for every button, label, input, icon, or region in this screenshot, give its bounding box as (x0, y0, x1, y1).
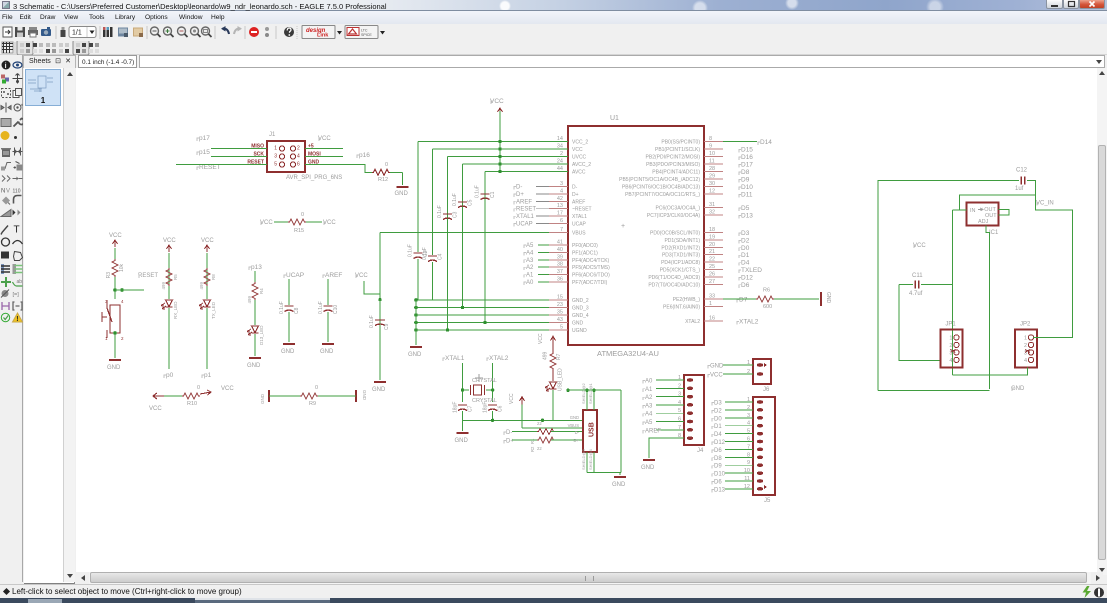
svg-text:ADJ: ADJ (978, 219, 989, 225)
svg-text:GND: GND (281, 349, 295, 355)
svg-text:A4: A4 (526, 250, 534, 256)
svg-text:11: 11 (709, 159, 715, 165)
svg-text:GND: GND (247, 363, 261, 369)
svg-text:GND: GND (107, 365, 121, 371)
svg-text:0.1uF: 0.1uF (437, 205, 443, 218)
svg-text:26: 26 (709, 271, 715, 277)
svg-text:PD4(ICP1/ADC8): PD4(ICP1/ADC8) (661, 260, 700, 266)
svg-text:1: 1 (709, 301, 712, 307)
svg-text:D+: D+ (574, 438, 580, 443)
svg-text:D12: D12 (714, 440, 726, 446)
svg-text:VCC: VCC (163, 238, 176, 244)
svg-text:PF7(ADC7/TDI): PF7(ADC7/TDI) (572, 280, 608, 286)
svg-text:10k: 10k (119, 263, 125, 272)
svg-text:GND: GND (320, 349, 334, 355)
svg-text:0: 0 (197, 385, 200, 391)
svg-text:18: 18 (709, 227, 715, 233)
svg-text:VCC: VCC (323, 220, 336, 226)
svg-text:0.1uF: 0.1uF (408, 244, 414, 257)
svg-text:A2: A2 (526, 265, 534, 271)
svg-text:GND: GND (260, 393, 265, 404)
svg-text:A3: A3 (526, 258, 534, 264)
svg-text:22: 22 (537, 421, 542, 426)
svg-text:UVCC: UVCC (572, 155, 587, 161)
svg-text:0.1uF: 0.1uF (279, 301, 285, 314)
svg-text:GND: GND (362, 390, 367, 401)
svg-text:SHIELD@4: SHIELD@4 (588, 448, 593, 470)
svg-text:2: 2 (297, 146, 300, 152)
svg-text:R12: R12 (378, 177, 388, 183)
svg-text:VBUS: VBUS (568, 423, 580, 428)
svg-text:29: 29 (709, 174, 715, 180)
svg-text:7: 7 (560, 227, 563, 233)
svg-text:!: ! (16, 316, 18, 323)
svg-text:3: 3 (274, 154, 277, 160)
svg-text:27: 27 (709, 279, 715, 285)
svg-text:D0: D0 (741, 245, 750, 252)
svg-text:VCC: VCC (109, 233, 122, 239)
svg-text:41: 41 (557, 240, 563, 246)
svg-text:RESET: RESET (516, 207, 536, 213)
svg-text:SHIELD@1: SHIELD@1 (588, 382, 593, 404)
svg-text:39: 39 (557, 254, 563, 260)
svg-text:35: 35 (557, 310, 563, 316)
svg-text:D-: D- (506, 430, 512, 436)
svg-text:VCC: VCC (201, 238, 214, 244)
svg-text:AREF: AREF (645, 428, 661, 434)
svg-text:1uf: 1uf (1015, 186, 1024, 192)
svg-text:VCC: VCC (318, 136, 331, 142)
svg-text:R3: R3 (106, 272, 112, 279)
svg-text:SPICE: SPICE (361, 33, 372, 37)
svg-text:22: 22 (709, 257, 715, 263)
svg-text:D9: D9 (741, 177, 750, 184)
svg-text:33: 33 (709, 294, 715, 300)
svg-text:p13: p13 (251, 264, 262, 271)
svg-text:C1: C1 (490, 191, 496, 198)
svg-text:D3: D3 (741, 230, 750, 237)
svg-text:USB: USB (589, 422, 596, 437)
svg-text:D2: D2 (741, 237, 750, 244)
svg-text:42: 42 (557, 196, 563, 202)
svg-text:R4: R4 (259, 288, 264, 294)
svg-text:ATMEGA32U4-AU: ATMEGA32U4-AU (597, 349, 659, 358)
svg-text:GND: GND (395, 191, 409, 197)
svg-text:A3: A3 (645, 403, 653, 409)
svg-text:1: 1 (949, 335, 952, 341)
svg-text:R10: R10 (187, 401, 197, 407)
svg-text:C5: C5 (468, 199, 474, 206)
svg-text:0: 0 (301, 212, 304, 218)
svg-text:USB_LED: USB_LED (558, 368, 564, 391)
svg-text:D13_LED: D13_LED (259, 325, 264, 345)
svg-text:PB2(PDI/PCINT2/MOSI): PB2(PDI/PCINT2/MOSI) (646, 155, 701, 161)
svg-text:GND: GND (570, 415, 579, 420)
svg-text:17: 17 (557, 211, 563, 217)
svg-text:AREF: AREF (572, 199, 585, 205)
svg-text:R15: R15 (294, 228, 304, 234)
svg-text:10: 10 (709, 151, 715, 157)
svg-text:D17: D17 (741, 162, 753, 169)
svg-text:GND_3: GND_3 (572, 306, 589, 312)
svg-text:J6: J6 (763, 387, 770, 393)
svg-text:D0: D0 (714, 416, 722, 422)
svg-text:C11: C11 (912, 273, 923, 279)
svg-text:6: 6 (560, 218, 563, 224)
svg-text:A5: A5 (526, 243, 534, 249)
svg-text:A1: A1 (645, 387, 653, 393)
svg-text:R1: R1 (530, 438, 535, 444)
svg-text:A5: A5 (645, 420, 653, 426)
svg-text:19: 19 (709, 234, 715, 240)
svg-text:VCC_2: VCC_2 (572, 140, 588, 146)
svg-text:600: 600 (763, 304, 772, 310)
svg-text:2: 2 (949, 343, 952, 349)
svg-text:D3: D3 (714, 401, 722, 407)
svg-text:AVCC: AVCC (572, 170, 586, 176)
svg-text:110: 110 (13, 189, 21, 195)
svg-text:PD7(T0/OC4D/ADC10): PD7(T0/OC4D/ADC10) (648, 282, 700, 288)
svg-text:31: 31 (709, 202, 715, 208)
svg-text:VCC: VCC (572, 147, 583, 153)
svg-text:0: 0 (385, 162, 388, 168)
svg-text:~RESET: ~RESET (572, 207, 592, 213)
svg-text:D6: D6 (714, 480, 722, 486)
svg-text:43: 43 (557, 317, 563, 323)
svg-text:0.1uF: 0.1uF (475, 185, 481, 198)
svg-text:4: 4 (949, 358, 952, 364)
svg-text:J4: J4 (697, 448, 704, 454)
svg-text:Link: Link (317, 33, 329, 39)
svg-text:GND_4: GND_4 (572, 313, 589, 319)
svg-text:PF4(ADC4/TCK): PF4(ADC4/TCK) (572, 258, 610, 264)
svg-text:PF5(ADC5/TMS): PF5(ADC5/TMS) (572, 265, 610, 271)
svg-text:D6: D6 (741, 282, 750, 289)
svg-text:15: 15 (557, 295, 563, 301)
svg-text:PF1(ADC1): PF1(ADC1) (572, 250, 598, 256)
svg-text:JP1: JP1 (945, 321, 956, 327)
svg-text:C9: C9 (384, 323, 390, 330)
svg-text:37: 37 (557, 269, 563, 275)
svg-text:GND_2: GND_2 (572, 298, 589, 304)
svg-text:C6: C6 (498, 405, 504, 412)
svg-text:VCC: VCC (260, 220, 273, 226)
svg-text:IC1: IC1 (989, 230, 999, 236)
svg-text:R2: R2 (530, 446, 535, 452)
svg-text:D1: D1 (714, 424, 722, 430)
svg-text:0.1uF: 0.1uF (318, 301, 324, 314)
svg-text:VCC: VCC (710, 373, 723, 379)
svg-text:D10: D10 (741, 184, 753, 191)
svg-text:28: 28 (709, 166, 715, 172)
svg-text:6: 6 (297, 162, 300, 168)
svg-text:VCC: VCC (509, 393, 515, 404)
svg-text:D+: D+ (506, 439, 514, 445)
svg-text:D13: D13 (741, 213, 753, 220)
svg-text:A1: A1 (526, 273, 534, 279)
svg-text:PB3(PDO/PCIN3/MISO): PB3(PDO/PCIN3/MISO) (646, 162, 700, 168)
svg-text:SHIELD@2: SHIELD@2 (581, 382, 586, 404)
svg-text:PF6(ADC6/TDO): PF6(ADC6/TDO) (572, 273, 610, 279)
svg-text:[=]: [=] (13, 292, 20, 298)
svg-text:RESET: RESET (199, 164, 221, 171)
svg-text:0.1uF: 0.1uF (369, 315, 375, 328)
svg-text:GND: GND (408, 352, 422, 358)
svg-text:R9: R9 (309, 401, 316, 407)
svg-text:D+: D+ (572, 192, 579, 198)
svg-text:25: 25 (709, 264, 715, 270)
svg-text:PB4(PCINT4/ADC11): PB4(PCINT4/ADC11) (652, 170, 700, 176)
svg-text:2: 2 (1024, 343, 1027, 349)
svg-text:T: T (14, 225, 20, 236)
svg-text:AREF: AREF (325, 272, 342, 279)
svg-text:XTAL1: XTAL1 (445, 355, 465, 362)
svg-text:LTC: LTC (361, 29, 368, 33)
svg-text:16: 16 (709, 316, 715, 322)
svg-text:N: N (1, 189, 5, 195)
svg-text:R7: R7 (556, 353, 562, 360)
svg-text:D13: D13 (714, 487, 726, 493)
svg-text:A4: A4 (645, 412, 653, 418)
svg-text:GND: GND (641, 465, 655, 471)
svg-text:VCC: VCC (913, 243, 926, 249)
svg-text:IN: IN (970, 208, 976, 214)
svg-text:CRYSTAL: CRYSTAL (472, 378, 497, 384)
svg-text:21: 21 (709, 249, 715, 255)
svg-text:D2: D2 (714, 408, 722, 414)
svg-text:1: 1 (1024, 335, 1027, 341)
svg-text:PD1(SDA/INT1): PD1(SDA/INT1) (664, 238, 700, 244)
svg-text:ab: ab (17, 279, 23, 285)
svg-text:VCC: VCC (221, 386, 234, 392)
svg-text:C3: C3 (453, 211, 459, 218)
svg-text:18pF: 18pF (483, 402, 489, 413)
svg-text:D12: D12 (741, 274, 753, 281)
svg-text:UCAP: UCAP (516, 222, 533, 228)
svg-text:D4: D4 (741, 260, 750, 267)
svg-text:GND: GND (572, 321, 584, 327)
svg-text:SHIELD@3: SHIELD@3 (581, 448, 586, 470)
svg-text:D1: D1 (741, 252, 750, 259)
svg-text:23: 23 (557, 302, 563, 308)
svg-text:p15: p15 (199, 149, 210, 156)
svg-text:0.1uF: 0.1uF (422, 247, 428, 260)
svg-text:40: 40 (557, 247, 563, 253)
svg-text:RX_LED: RX_LED (173, 301, 178, 319)
svg-text:5: 5 (560, 325, 563, 331)
svg-text:XTAL2: XTAL2 (489, 355, 509, 362)
svg-text:22: 22 (537, 446, 542, 451)
svg-text:PC7(ICP3/CLK0/OC4A): PC7(ICP3/CLK0/OC4A) (647, 213, 700, 219)
svg-text:38: 38 (557, 262, 563, 268)
svg-text:GND: GND (710, 364, 724, 370)
svg-text:p16: p16 (359, 152, 370, 159)
svg-text:PE2(HWB_): PE2(HWB_) (673, 297, 701, 303)
svg-text:VCC: VCC (538, 333, 544, 344)
svg-text:D10: D10 (714, 472, 726, 478)
svg-text:TXLED: TXLED (741, 267, 762, 274)
svg-text:0: 0 (315, 385, 318, 391)
svg-text:9: 9 (709, 144, 712, 150)
svg-text:JP2: JP2 (1020, 321, 1031, 327)
svg-text:R8: R8 (211, 274, 216, 280)
svg-text:p0: p0 (166, 372, 174, 379)
svg-text:D+: D+ (516, 192, 524, 198)
svg-text:12: 12 (709, 189, 715, 195)
svg-text:D6: D6 (714, 448, 722, 454)
svg-text:1: 1 (274, 146, 277, 152)
svg-text:D5: D5 (741, 205, 750, 212)
svg-text:D-: D- (516, 185, 522, 191)
svg-text:PB5(PCINT5/OC1A/OC4B_/ADC12): PB5(PCINT5/OC1A/OC4B_/ADC12) (619, 177, 700, 183)
svg-text:20: 20 (709, 242, 715, 248)
svg-text:PD5(XCK1/CTS_): PD5(XCK1/CTS_) (660, 268, 701, 274)
svg-text:D11: D11 (741, 192, 753, 199)
svg-text:+: + (621, 223, 625, 230)
svg-text:V: V (6, 189, 10, 195)
svg-text:PE6(INT.6/AIN0): PE6(INT.6/AIN0) (663, 304, 700, 310)
svg-text:AREF: AREF (516, 199, 532, 205)
svg-text:PB0(SS/PCINT0): PB0(SS/PCINT0) (661, 140, 700, 146)
svg-text:VC_IN: VC_IN (1036, 201, 1054, 207)
svg-text:PF0(ADC0): PF0(ADC0) (572, 243, 598, 249)
svg-text:D-: D- (572, 185, 578, 191)
svg-text:499: 499 (161, 282, 166, 290)
svg-text:XTAL2: XTAL2 (685, 319, 700, 325)
svg-text:A2: A2 (645, 395, 653, 401)
svg-text:R6: R6 (763, 288, 770, 294)
svg-text:4.7uf: 4.7uf (909, 291, 923, 297)
svg-text:D-: D- (575, 430, 580, 435)
svg-text:p1: p1 (204, 372, 212, 379)
svg-text:D9: D9 (714, 464, 722, 470)
svg-text:GND: GND (1011, 386, 1025, 392)
svg-text:VBUS: VBUS (572, 231, 586, 237)
svg-text:4: 4 (560, 189, 563, 195)
svg-text:499: 499 (199, 282, 204, 290)
svg-text:D8: D8 (741, 169, 750, 176)
svg-text:RESET: RESET (138, 273, 158, 279)
svg-text:R5: R5 (173, 274, 178, 280)
svg-text:PB1(PCINT1/SCLK): PB1(PCINT1/SCLK) (655, 147, 700, 153)
svg-text:PB6(PCINT6/OC1B/OC4B/ADC13): PB6(PCINT6/OC1B/OC4B/ADC13) (622, 185, 700, 191)
svg-text:AVCC_2: AVCC_2 (572, 162, 591, 168)
svg-text:2: 2 (121, 336, 124, 341)
svg-text:PD2(RXD1/INT2): PD2(RXD1/INT2) (661, 245, 700, 251)
svg-text:GND: GND (455, 438, 469, 444)
svg-text:PD0(OC0B/SCL/INT0): PD0(OC0B/SCL/INT0) (650, 231, 700, 237)
svg-text:C4: C4 (438, 253, 444, 260)
svg-text:D4: D4 (714, 432, 722, 438)
svg-text:VCC: VCC (490, 98, 504, 105)
svg-text:499: 499 (247, 296, 252, 304)
svg-text:4: 4 (297, 154, 300, 160)
svg-text:PD3(TXD1/INT3): PD3(TXD1/INT3) (662, 253, 700, 259)
svg-text:A0: A0 (526, 280, 534, 286)
svg-text:499: 499 (543, 351, 549, 360)
svg-text:VCC: VCC (149, 406, 162, 412)
svg-text:UCAP: UCAP (286, 272, 304, 279)
svg-text:PD6(T1/OC4D_/ADC9): PD6(T1/OC4D_/ADC9) (648, 275, 700, 281)
svg-text:AVR_SPI_PRG_6NS: AVR_SPI_PRG_6NS (286, 175, 342, 181)
svg-text:D15: D15 (741, 147, 753, 154)
svg-text:D7: D7 (739, 297, 748, 304)
svg-text:UCAP: UCAP (572, 222, 587, 228)
svg-text:UGND: UGND (572, 328, 587, 334)
svg-text:30: 30 (709, 181, 715, 187)
svg-text:i: i (5, 63, 7, 70)
svg-text:GND: GND (825, 292, 831, 304)
svg-text:D16: D16 (741, 154, 753, 161)
svg-text:1/1: 1/1 (72, 30, 82, 37)
svg-text:C10: C10 (333, 305, 339, 314)
svg-text:3: 3 (560, 181, 563, 187)
svg-text:VCC: VCC (355, 273, 368, 279)
svg-text:4: 4 (1024, 358, 1027, 364)
svg-text:4: 4 (121, 299, 124, 304)
svg-text:XTAL1: XTAL1 (572, 214, 587, 220)
svg-text:C8: C8 (294, 307, 300, 314)
svg-text:XTAL2: XTAL2 (739, 319, 759, 326)
svg-text:D14: D14 (760, 139, 772, 146)
svg-text:5: 5 (274, 162, 277, 168)
svg-text:U1: U1 (610, 115, 619, 122)
svg-text:J5: J5 (764, 498, 771, 504)
svg-text:13: 13 (557, 203, 563, 209)
svg-text:PB7(PCINT7/OC0A/OC1C/RTS_): PB7(PCINT7/OC0A/OC1C/RTS_) (625, 192, 700, 198)
svg-text:8: 8 (709, 136, 712, 142)
svg-text:D8: D8 (714, 456, 722, 462)
svg-text:PC6(OC3A/OC4A_): PC6(OC3A/OC4A_) (656, 206, 701, 212)
svg-text:36: 36 (557, 277, 563, 283)
svg-text:GND: GND (612, 482, 626, 488)
svg-text:C7: C7 (468, 405, 474, 412)
svg-text:32: 32 (709, 210, 715, 216)
svg-text:18pF: 18pF (453, 402, 459, 413)
svg-text:0.1uF: 0.1uF (452, 193, 458, 206)
svg-text:TX_LED: TX_LED (211, 301, 216, 319)
svg-text:XTAL1: XTAL1 (516, 214, 535, 220)
svg-text:A0: A0 (645, 379, 653, 385)
svg-text:p17: p17 (199, 135, 210, 142)
svg-text:J1: J1 (269, 132, 276, 138)
svg-text:GND: GND (372, 387, 386, 393)
svg-text:C12: C12 (1016, 168, 1028, 174)
